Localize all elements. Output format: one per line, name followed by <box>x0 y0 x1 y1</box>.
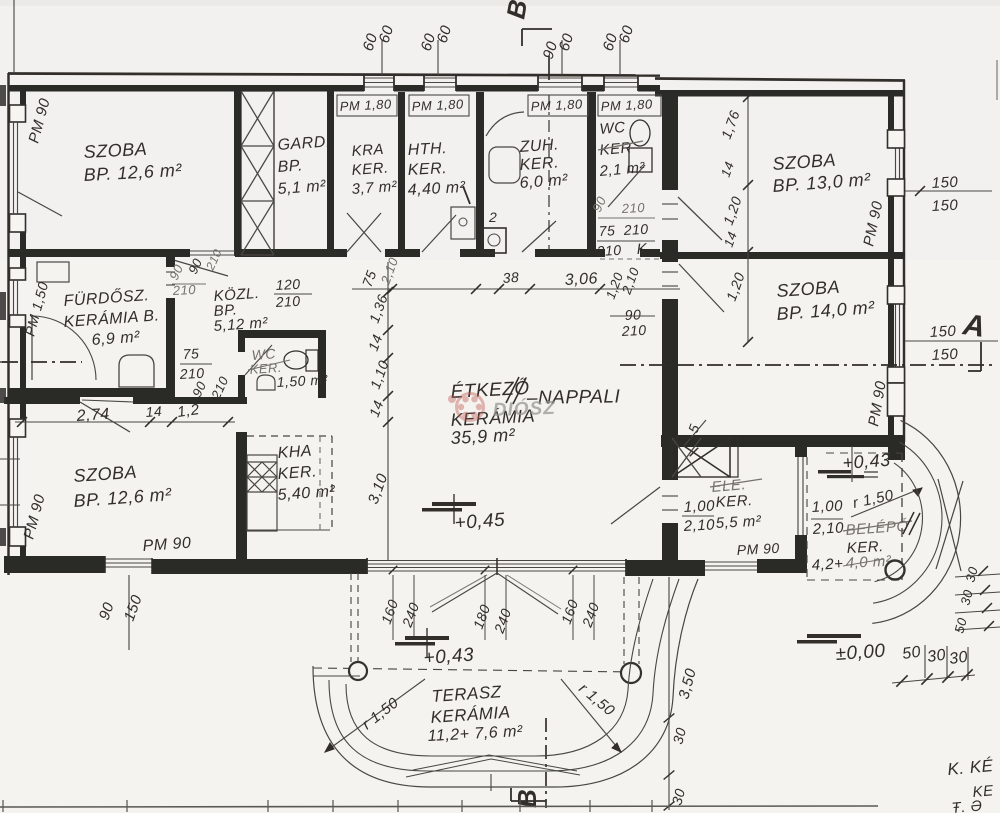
svg-text:38: 38 <box>502 269 520 286</box>
svg-text:A: A <box>960 308 987 344</box>
svg-text:75: 75 <box>598 222 615 239</box>
svg-text:KER.: KER. <box>407 160 447 179</box>
svg-text:210: 210 <box>620 200 645 216</box>
svg-text:±0,00: ±0,00 <box>835 641 886 665</box>
svg-text:150: 150 <box>931 197 959 215</box>
svg-text:PM 1,80: PM 1,80 <box>600 96 653 114</box>
svg-text:BP.: BP. <box>277 157 303 176</box>
svg-text:210: 210 <box>595 242 622 259</box>
svg-text:2: 2 <box>488 209 497 225</box>
svg-text:PM 1,80: PM 1,80 <box>411 96 464 114</box>
svg-text:KER.: KER. <box>351 159 389 179</box>
svg-text:6,9 m²: 6,9 m² <box>91 329 141 349</box>
svg-text:2,10: 2,10 <box>811 519 844 538</box>
svg-text:50: 50 <box>901 644 922 663</box>
svg-text:1,00: 1,00 <box>811 497 843 516</box>
svg-text:2,74: 2,74 <box>75 406 110 425</box>
svg-text:PM 90: PM 90 <box>142 535 192 555</box>
svg-text:Ŧ. Ə: Ŧ. Ə <box>951 797 984 813</box>
svg-text:ZUH.: ZUH. <box>518 136 559 156</box>
svg-text:1,2: 1,2 <box>176 401 201 421</box>
svg-text:1,50 m²: 1,50 m² <box>276 371 329 390</box>
svg-text:K.: K. <box>636 240 652 258</box>
svg-text:210: 210 <box>274 293 301 310</box>
svg-text:3,7 m²: 3,7 m² <box>351 178 398 198</box>
svg-text:PM 1,80: PM 1,80 <box>530 96 583 114</box>
svg-text:WC: WC <box>599 119 626 138</box>
svg-text:1,00: 1,00 <box>683 497 715 516</box>
svg-text:3,06: 3,06 <box>564 270 598 289</box>
svg-text:150: 150 <box>929 323 957 341</box>
svg-text:5,1 m²: 5,1 m² <box>277 178 327 198</box>
svg-text:KER.: KER. <box>519 154 559 174</box>
svg-text:KER.: KER. <box>715 492 753 511</box>
svg-text:PM 1,80: PM 1,80 <box>339 96 392 114</box>
svg-text:HTH.: HTH. <box>407 140 447 159</box>
svg-text:DIÓSZ: DIÓSZ <box>492 397 556 421</box>
svg-text:B: B <box>512 789 542 808</box>
svg-text:KER.: KER. <box>277 463 317 483</box>
svg-text:150: 150 <box>931 174 959 192</box>
svg-text:30: 30 <box>948 649 969 668</box>
svg-text:210: 210 <box>178 365 205 382</box>
svg-text:2,10: 2,10 <box>682 516 715 535</box>
svg-text:90: 90 <box>624 306 641 323</box>
svg-text:150: 150 <box>931 346 959 364</box>
svg-text:+0,43: +0,43 <box>423 645 475 669</box>
svg-text:210: 210 <box>622 221 649 238</box>
svg-text:30: 30 <box>926 647 947 666</box>
svg-text:35,9 m²: 35,9 m² <box>450 425 516 448</box>
svg-text:KHA: KHA <box>277 443 313 462</box>
svg-text:75: 75 <box>182 345 199 362</box>
svg-text:K. KÉ: K. KÉ <box>947 756 995 779</box>
svg-text:KRA: KRA <box>351 141 384 160</box>
svg-text:+0,45: +0,45 <box>454 510 506 534</box>
svg-text:4,2+: 4,2+ <box>811 555 843 574</box>
svg-text:PM 90: PM 90 <box>736 540 780 558</box>
svg-text:4,40 m²: 4,40 m² <box>407 179 466 199</box>
svg-text:5,5 m²: 5,5 m² <box>715 513 762 532</box>
svg-text:120: 120 <box>275 276 301 293</box>
svg-text:210: 210 <box>620 322 647 339</box>
svg-text:SZOBA: SZOBA <box>83 139 147 162</box>
svg-text:6,0 m²: 6,0 m² <box>519 172 569 192</box>
svg-text:14: 14 <box>145 403 163 420</box>
